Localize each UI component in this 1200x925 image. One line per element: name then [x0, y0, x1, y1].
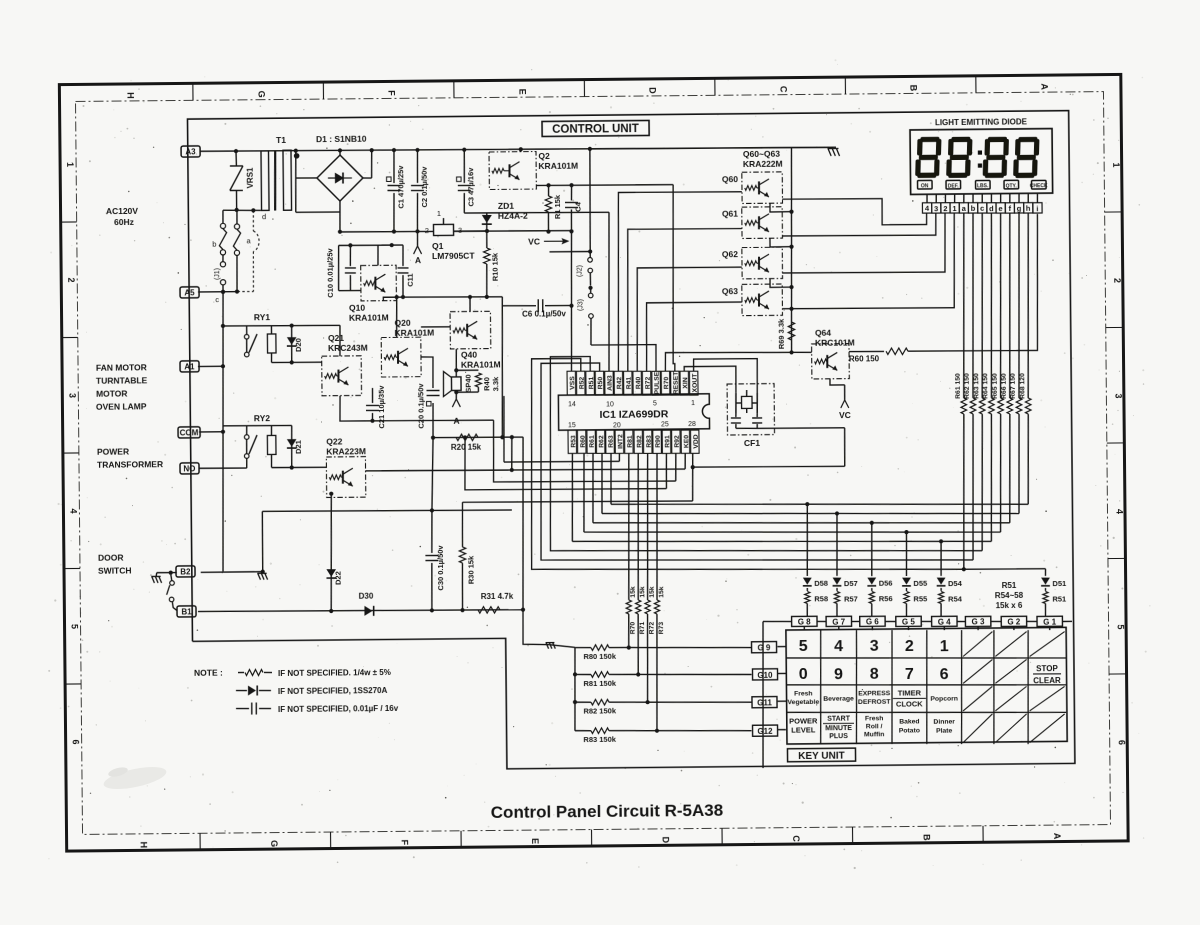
svg-text:C11: C11: [405, 273, 414, 286]
wire A1 line: [198, 365, 223, 367]
node G8: [792, 616, 817, 626]
svg-text:R70: R70: [630, 622, 637, 635]
segment resistors R61-R68: [962, 213, 966, 398]
wire Q60 out to display pin 4: [782, 198, 927, 226]
svg-text:3: 3: [870, 638, 879, 655]
wire key unit left boundary: [762, 621, 765, 768]
wire rail to Q60 bank: [590, 147, 833, 150]
terminal G9: [752, 642, 777, 653]
IC1 bottom pin boxes: [568, 430, 577, 453]
svg-text:R41: R41: [626, 377, 633, 390]
svg-text:D1 : S1NB10: D1 : S1NB10: [316, 133, 367, 143]
svg-text:2: 2: [66, 277, 76, 282]
svg-text:A3: A3: [185, 147, 196, 156]
wire R30 to VDD line: [462, 500, 692, 503]
svg-text:Beverage: Beverage: [823, 695, 854, 702]
svg-text:OVEN LAMP: OVEN LAMP: [96, 401, 147, 411]
main circuit box outline: [187, 111, 1074, 772]
hatched unused keys: [963, 632, 993, 657]
svg-text:R60: R60: [580, 435, 587, 448]
svg-text:CLEAR: CLEAR: [1033, 676, 1061, 685]
svg-text:R56: R56: [879, 594, 893, 603]
node G4: [932, 616, 957, 626]
svg-text:R40: R40: [635, 376, 642, 389]
jumper J1: [222, 255, 224, 262]
svg-text:TIMER: TIMER: [898, 688, 922, 697]
wire bridge bottom to lower rail: [339, 201, 342, 232]
svg-text:1: 1: [952, 204, 956, 213]
svg-text:R80 150k: R80 150k: [583, 652, 616, 661]
svg-text:DOOR: DOOR: [98, 553, 124, 563]
svg-text:C: C: [778, 86, 788, 93]
svg-text:RESET: RESET: [673, 371, 680, 395]
capacitor C21 10u/35v: [371, 388, 373, 403]
resistor R1 15k: [547, 185, 549, 196]
svg-text:0: 0: [799, 666, 808, 683]
svg-text:R92: R92: [674, 435, 681, 448]
svg-text:R81: R81: [627, 435, 634, 448]
node G6: [860, 616, 885, 626]
svg-text:G10: G10: [757, 671, 773, 680]
display pin cells 4321 abcdefghi: [922, 203, 931, 213]
svg-text:Q61: Q61: [722, 209, 738, 219]
wire Q2 out line A: [536, 184, 673, 186]
svg-text:R51: R51: [1002, 581, 1017, 590]
svg-text:KRA222M: KRA222M: [743, 159, 783, 169]
node G5: [896, 616, 921, 626]
svg-text:R60 150: R60 150: [849, 354, 880, 363]
svg-text:COM: COM: [180, 428, 199, 437]
svg-text:Control Panel Circuit R-5A38: Control Panel Circuit R-5A38: [491, 801, 724, 822]
svg-text:7: 7: [905, 666, 914, 683]
svg-text:DEF.: DEF.: [948, 183, 960, 189]
svg-text:1: 1: [437, 209, 441, 218]
node G3: [965, 616, 990, 626]
svg-text:R51: R51: [588, 377, 595, 390]
svg-text:LBS.: LBS.: [977, 183, 989, 189]
svg-text:D20: D20: [294, 338, 303, 352]
svg-text:2: 2: [943, 204, 947, 213]
svg-text:6: 6: [940, 666, 949, 683]
wire XIN to CF1: [684, 366, 736, 393]
wire Q10 out down to R20 line: [501, 297, 504, 438]
svg-text:14: 14: [568, 401, 576, 408]
KEY UNIT box: [787, 748, 855, 762]
svg-text:R68 120: R68 120: [1019, 373, 1026, 399]
svg-text:G11: G11: [757, 698, 772, 707]
wire Q64 out through R60: [849, 350, 884, 352]
svg-text:Plate: Plate: [936, 727, 953, 734]
wire Q10 to Q20 collector: [395, 297, 398, 337]
diode D54: [940, 541, 943, 576]
svg-text:F: F: [387, 90, 397, 96]
svg-text:Fresh: Fresh: [794, 690, 813, 697]
svg-text:C21 10µ/35v: C21 10µ/35v: [377, 385, 386, 429]
capacitor C11: [402, 245, 404, 266]
svg-text:28: 28: [688, 421, 696, 428]
svg-text:A: A: [1039, 83, 1049, 90]
svg-text:Q20: Q20: [394, 318, 410, 328]
svg-text:Baked: Baked: [899, 718, 919, 725]
svg-text:D54: D54: [948, 579, 963, 588]
svg-text:R66 150: R66 150: [1001, 373, 1008, 399]
svg-text:R91: R91: [664, 435, 671, 448]
svg-text:POWER: POWER: [97, 447, 129, 457]
wire RY1 bottom junction: [272, 361, 322, 364]
svg-text:KRA101M: KRA101M: [394, 328, 434, 338]
svg-text:5: 5: [1116, 624, 1126, 629]
svg-text:G 8: G 8: [798, 617, 812, 626]
terminal A5: [180, 287, 199, 298]
svg-text:Q60~Q63: Q60~Q63: [743, 149, 780, 159]
svg-text:8: 8: [870, 666, 879, 683]
svg-text:G 1: G 1: [1043, 617, 1057, 626]
svg-text:3: 3: [67, 393, 77, 398]
svg-text:G 6: G 6: [866, 617, 880, 626]
svg-text:AIN3: AIN3: [607, 375, 614, 391]
svg-text:6: 6: [71, 739, 81, 744]
wire top rail A3: [200, 145, 836, 153]
svg-text:D58: D58: [814, 579, 828, 588]
svg-text:H: H: [126, 92, 136, 99]
svg-text:d: d: [262, 212, 266, 221]
svg-text:R51: R51: [1052, 594, 1066, 603]
svg-text:NOTE :: NOTE :: [194, 668, 223, 678]
svg-text:R30 15k: R30 15k: [466, 555, 475, 584]
wire V2 to PULSE pin: [590, 318, 593, 345]
svg-text:IF NOT SPECIFIED, 1SS270A: IF NOT SPECIFIED, 1SS270A: [278, 686, 388, 696]
svg-text:HZ4A-2: HZ4A-2: [498, 211, 528, 221]
node A arrow: [416, 231, 418, 246]
wire lower rail: [340, 231, 433, 232]
svg-text:CONTROL UNIT: CONTROL UNIT: [552, 123, 639, 136]
wire V523 from R20 line: [521, 437, 524, 610]
svg-text:R55: R55: [913, 594, 927, 603]
status box LBS.: [976, 180, 991, 189]
status box DEF.: [946, 180, 961, 189]
frame zone dividers left: [61, 221, 77, 223]
svg-text:R50: R50: [597, 377, 604, 390]
IC1 top pin boxes: [567, 371, 576, 395]
svg-text:EXPRESS: EXPRESS: [858, 690, 891, 697]
svg-text:C2 0.1µ/50v: C2 0.1µ/50v: [420, 166, 429, 208]
wire bundle staircase to IC: [611, 500, 1028, 508]
svg-text:G 4: G 4: [938, 617, 952, 626]
svg-text:1: 1: [1111, 162, 1121, 167]
wire G chain: [763, 620, 792, 623]
zener ZD1 HZ4A-2: [486, 213, 488, 231]
svg-text:D56: D56: [879, 579, 893, 588]
svg-text:25: 25: [661, 421, 669, 428]
wire C3/ZD1/AIN3 node: [464, 212, 609, 214]
svg-text:Q40: Q40: [461, 350, 477, 360]
wire Q21 emitter to C21 line: [340, 394, 494, 421]
svg-text:Q63: Q63: [722, 286, 738, 296]
wire switch top line: [223, 209, 261, 212]
svg-text:(J2): (J2): [576, 265, 583, 277]
svg-text:F: F: [400, 840, 410, 846]
svg-text:2: 2: [905, 638, 914, 655]
svg-text:R62: R62: [598, 435, 605, 448]
svg-text:Q10: Q10: [349, 303, 365, 313]
svg-text:R61 150: R61 150: [955, 373, 962, 399]
svg-text:A: A: [1052, 833, 1062, 840]
svg-text:A: A: [415, 255, 421, 265]
svg-text:R62 150: R62 150: [964, 373, 971, 399]
wire B1 corner to keypad bus: [523, 609, 549, 644]
wire Q21 collector: [339, 325, 342, 356]
svg-text:CHECK: CHECK: [1030, 183, 1048, 189]
diode D55: [905, 532, 908, 576]
svg-text:VRS1: VRS1: [245, 167, 254, 189]
frame zone dividers top: [192, 83, 194, 100]
7-segment digit 1: [920, 137, 939, 142]
svg-text:KRA223M: KRA223M: [326, 446, 366, 456]
wire A5 line: [198, 291, 237, 293]
svg-text:15k: 15k: [649, 586, 656, 598]
svg-text:IF NOT SPECIFIED. 1/4w ± 5%: IF NOT SPECIFIED. 1/4w ± 5%: [278, 668, 391, 678]
resistor R55: [906, 588, 908, 591]
svg-text:NO: NO: [183, 464, 195, 473]
7-segment digit 2: [951, 137, 970, 142]
diode D21: [290, 425, 293, 467]
terminal COM: [178, 427, 200, 438]
wire wrap R51 to bundle j5: [549, 353, 983, 555]
svg-text:15: 15: [568, 422, 576, 429]
wire B1 line: [198, 608, 523, 612]
wire R40 to Q62 base: [636, 267, 743, 371]
svg-text:15k: 15k: [630, 586, 637, 598]
svg-text:Q64: Q64: [815, 328, 831, 338]
svg-text:KE0: KE0: [683, 435, 690, 449]
svg-text:4: 4: [68, 508, 78, 513]
svg-text:TURNTABLE: TURNTABLE: [96, 375, 148, 385]
wire Q62 out to display pin 2: [782, 213, 946, 273]
resistor R20 15k: [456, 434, 478, 441]
transistor Q2 KRA101M: [489, 152, 536, 190]
wire wrap R52 to bundle j7: [530, 355, 964, 574]
transistor Q40 KRA101M: [450, 311, 491, 349]
svg-text:6: 6: [1117, 740, 1127, 745]
frame zone dividers bottom: [199, 833, 201, 849]
svg-text:VDD: VDD: [693, 434, 700, 449]
resistor R54: [940, 588, 942, 591]
wire B2 vertical to long line: [261, 511, 264, 571]
svg-text:D57: D57: [844, 579, 858, 588]
svg-text:D30: D30: [359, 591, 374, 600]
svg-text:1: 1: [691, 400, 695, 407]
svg-text:TRANSFORMER: TRANSFORMER: [97, 459, 163, 470]
svg-text:R72: R72: [644, 376, 651, 389]
svg-text:60Hz: 60Hz: [114, 217, 134, 227]
svg-text:3.3k: 3.3k: [491, 376, 500, 392]
dashed jumper d path: [252, 210, 254, 231]
diode D57: [836, 513, 837, 576]
svg-text:2: 2: [1112, 278, 1122, 283]
resistor R69 3.3k: [788, 322, 795, 340]
svg-text:R57: R57: [844, 594, 858, 603]
svg-text:KRC243M: KRC243M: [328, 343, 368, 353]
wire Q40 base feed: [421, 326, 450, 328]
svg-text:15k: 15k: [639, 586, 646, 598]
svg-text:C3 47µ/16v: C3 47µ/16v: [466, 167, 475, 207]
svg-text:Vegetable: Vegetable: [787, 699, 819, 706]
wire R41 to Q61 base: [626, 228, 743, 371]
wire R80 bus vertical: [574, 647, 576, 730]
svg-text:9: 9: [834, 666, 843, 683]
wire Q10 feed line: [339, 244, 403, 247]
svg-text:R63: R63: [608, 435, 615, 448]
wire VC node line: [549, 250, 590, 252]
wire AIN3 riser: [607, 212, 610, 371]
switch contact a: [236, 210, 238, 224]
svg-text:R72: R72: [649, 622, 656, 635]
svg-text:Q2: Q2: [538, 151, 550, 161]
note diode symbol: [236, 689, 247, 691]
wire R91 line: [464, 436, 666, 491]
7-segment digit 3: [988, 137, 1007, 142]
svg-text:G 7: G 7: [832, 617, 846, 626]
svg-text:5: 5: [653, 400, 657, 407]
door switch: [157, 572, 177, 574]
svg-text:R83: R83: [646, 435, 653, 448]
svg-text:G 2: G 2: [1007, 617, 1021, 626]
wire V2 vertical with jumpers: [589, 149, 591, 258]
resistor R56: [871, 588, 873, 591]
svg-text:R71: R71: [639, 622, 646, 635]
capacitor C10 0.01u/25v: [349, 245, 351, 266]
wire RESET riser: [671, 185, 674, 372]
diode resistor chains D54-D58 D51: [805, 502, 809, 506]
svg-text:MOTOR: MOTOR: [96, 389, 128, 399]
svg-text:R69 3.3k: R69 3.3k: [777, 318, 786, 349]
svg-text:IC1 IZA699DR: IC1 IZA699DR: [599, 408, 668, 421]
svg-text:A5: A5: [184, 288, 195, 297]
relay RY2 coil: [267, 435, 276, 454]
diode D30: [364, 606, 372, 616]
wire B2 line: [201, 571, 263, 574]
svg-text:c: c: [215, 295, 219, 304]
ground chassis top right: [828, 149, 831, 157]
svg-text:LM7905CT: LM7905CT: [432, 251, 475, 261]
jumper J2: [588, 258, 593, 263]
resonator CF1: [727, 384, 774, 435]
LED display box: [910, 129, 1053, 195]
svg-text:G: G: [269, 840, 279, 847]
svg-text:MINUTE: MINUTE: [825, 725, 852, 732]
diode D20: [290, 326, 293, 363]
resistor R30 15k: [461, 502, 464, 547]
T1 secondary winding: [283, 150, 292, 210]
svg-text:b: b: [212, 240, 216, 249]
ground chassis B2: [258, 573, 261, 579]
transistor Q10 KRA101M: [361, 265, 397, 301]
svg-text:R58: R58: [814, 594, 828, 603]
wire R42 to Q60 base: [617, 191, 744, 371]
wire Q22 emitter down to B1 via D22: [330, 494, 332, 611]
svg-text:D21: D21: [294, 440, 303, 454]
svg-text:Q62: Q62: [722, 249, 738, 259]
wire XOUT to CF1: [694, 358, 758, 393]
wire Q63 out to display pin 1: [781, 213, 955, 309]
svg-text:E: E: [517, 89, 527, 95]
svg-text:KRA101M: KRA101M: [461, 360, 501, 370]
svg-text:G 9: G 9: [757, 644, 771, 653]
svg-text:G 3: G 3: [972, 617, 986, 626]
diode D58: [807, 504, 808, 576]
svg-text:h: h: [1026, 204, 1031, 213]
svg-text:R70: R70: [663, 377, 670, 390]
wire Q20 emitter to C20: [421, 357, 433, 388]
svg-text:R10 15k: R10 15k: [490, 252, 499, 281]
svg-text:IF NOT SPECIFIED, 0.01µF / 16: IF NOT SPECIFIED, 0.01µF / 16v: [278, 704, 399, 714]
svg-text:VC: VC: [839, 410, 851, 420]
CONTROL UNIT box: [542, 120, 649, 136]
wire VDD VC line: [691, 465, 695, 469]
svg-text:VSS: VSS: [569, 376, 576, 390]
svg-text:4: 4: [1114, 509, 1124, 514]
resistor R83: [575, 730, 591, 732]
T1 primary winding: [261, 151, 269, 211]
wire Q6x collector rail: [790, 148, 794, 353]
node G1: [1037, 616, 1062, 626]
svg-text:Roll /: Roll /: [866, 723, 883, 730]
resistor R60 150: [886, 348, 908, 355]
wire KE0 line from Q22: [365, 468, 685, 472]
status box QTY.: [1004, 180, 1019, 189]
svg-text:R52: R52: [579, 377, 586, 390]
svg-text:A1: A1: [184, 362, 195, 371]
resistor R57: [836, 588, 838, 591]
svg-text:3: 3: [1113, 393, 1123, 398]
colon: [978, 150, 982, 154]
svg-text:Fresh: Fresh: [865, 715, 884, 722]
svg-text:4: 4: [834, 638, 843, 655]
svg-text:INT2: INT2: [617, 434, 624, 449]
wire COM line: [199, 431, 223, 433]
net VC arrow: [844, 385, 846, 400]
svg-text:E: E: [530, 838, 540, 844]
resistor R81: [575, 673, 591, 675]
terminal A1: [180, 361, 199, 372]
svg-text:POWER: POWER: [789, 716, 818, 725]
wire CF1 to VC line: [757, 427, 844, 428]
svg-text:ON: ON: [921, 183, 929, 189]
node dots on top rail: [234, 149, 238, 153]
svg-text:R90: R90: [655, 435, 662, 448]
svg-text:C1 470µ/25v: C1 470µ/25v: [396, 165, 405, 209]
wire Q64 emitter to VC: [830, 379, 845, 385]
terminal B2: [176, 566, 195, 577]
7-segment digit 4: [1018, 137, 1037, 142]
wire T1 secondary to rail and bridge: [291, 149, 296, 151]
resistor R80: [575, 646, 591, 648]
svg-text:(J1): (J1): [214, 268, 221, 280]
wire R92 line: [493, 418, 676, 482]
status box CHECK: [1032, 180, 1047, 189]
svg-text:C20 0.1µ/50v: C20 0.1µ/50v: [416, 383, 425, 429]
svg-text:C10 0.01µ/25v: C10 0.01µ/25v: [325, 247, 334, 297]
svg-text:Potato: Potato: [899, 727, 920, 734]
wire R20 line: [433, 437, 523, 438]
svg-text:A: A: [453, 416, 459, 426]
relay RY1 coil: [267, 334, 276, 353]
svg-text:D51: D51: [1052, 579, 1066, 588]
svg-text:c: c: [980, 204, 984, 213]
svg-text:R67 150: R67 150: [1010, 373, 1017, 399]
wire Q61 out to display pin 3: [782, 213, 936, 236]
svg-text:G12: G12: [757, 727, 773, 736]
